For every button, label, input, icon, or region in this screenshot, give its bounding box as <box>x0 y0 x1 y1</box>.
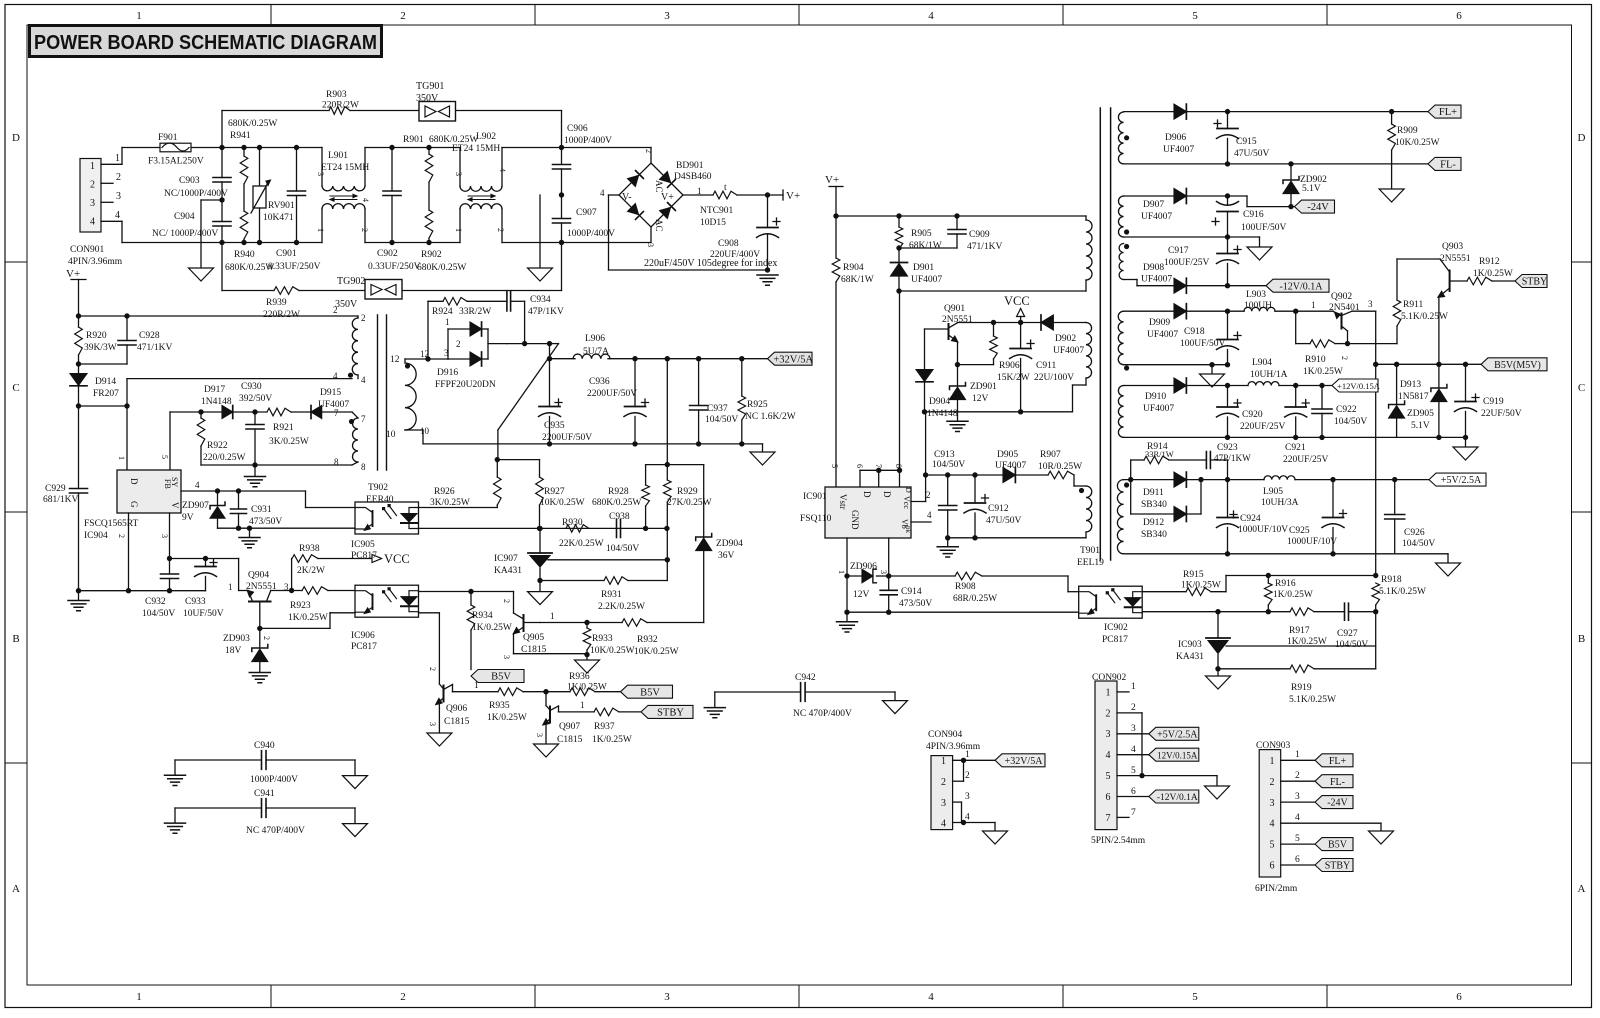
wire 12V winding return <box>1124 362 1231 374</box>
ground (C908) <box>757 275 778 285</box>
svg-text:3: 3 <box>664 991 670 1003</box>
wire CON902 pin7 stub <box>1117 808 1136 818</box>
svg-text:3: 3 <box>90 198 95 209</box>
capacitor C908 <box>710 195 780 270</box>
svg-text:UF4007: UF4007 <box>1163 145 1194 155</box>
svg-text:12V/0.15A: 12V/0.15A <box>1157 750 1198 760</box>
wire D914 to T902 pin4 and IC904 drain <box>79 371 367 470</box>
wire T901 primary return <box>899 280 1086 291</box>
svg-text:R918: R918 <box>1381 575 1402 585</box>
capacitor C926 <box>1385 480 1436 554</box>
ground (Q906) <box>427 733 452 746</box>
svg-text:V+: V+ <box>786 190 800 202</box>
svg-text:C915: C915 <box>1236 137 1257 147</box>
svg-text:IC903: IC903 <box>1178 640 1202 650</box>
svg-text:1: 1 <box>474 680 479 690</box>
svg-text:SB340: SB340 <box>1141 500 1167 510</box>
svg-text:R923: R923 <box>290 601 311 611</box>
svg-text:FL+: FL+ <box>1439 107 1457 118</box>
svg-text:22U/100V: 22U/100V <box>1034 373 1074 383</box>
svg-text:1K/0.25W: 1K/0.25W <box>472 623 512 633</box>
svg-text:IC902: IC902 <box>1104 623 1128 633</box>
transformer T902 aux winding pins 7-8 <box>334 408 366 472</box>
svg-text:L904: L904 <box>1252 358 1272 368</box>
svg-text:47U/50V: 47U/50V <box>986 516 1022 526</box>
wire Q902 output column <box>1375 311 1377 575</box>
svg-text:33R/2W: 33R/2W <box>459 307 491 317</box>
svg-text:C931: C931 <box>251 505 272 515</box>
svg-text:2: 2 <box>496 228 505 232</box>
resistor R915 <box>1142 570 1226 596</box>
ground (-24V return) <box>1247 247 1272 260</box>
svg-text:D915: D915 <box>320 388 341 398</box>
svg-text:C925: C925 <box>1289 526 1310 536</box>
wire Q904 collector node <box>271 559 302 594</box>
resistor R939 <box>263 287 300 320</box>
svg-text:22UF/50V: 22UF/50V <box>1481 409 1522 419</box>
svg-text:1: 1 <box>1106 687 1111 698</box>
svg-text:C1815: C1815 <box>557 735 583 745</box>
svg-text:L902: L902 <box>476 132 496 142</box>
svg-text:FL-: FL- <box>1440 160 1456 171</box>
svg-text:2: 2 <box>1270 777 1275 788</box>
wire CON902 pin2 tie to pin5 <box>1117 703 1145 778</box>
capacitor C928 <box>79 316 173 364</box>
svg-text:R924: R924 <box>432 307 453 317</box>
svg-text:CON902: CON902 <box>1092 673 1127 683</box>
capacitor C906 <box>553 124 613 195</box>
svg-text:6PIN/2mm: 6PIN/2mm <box>1255 884 1298 894</box>
resistor R925 <box>738 359 796 447</box>
resistor R920 <box>75 316 117 367</box>
inductor L901 common-mode choke <box>316 148 370 243</box>
svg-text:2N5401: 2N5401 <box>1329 303 1360 313</box>
dual diode D916 FFPF20U20DN <box>435 317 507 390</box>
transformer T901 primary winding <box>1086 216 1092 280</box>
svg-text:GND: GND <box>850 510 860 530</box>
svg-text:1: 1 <box>90 161 95 172</box>
svg-text:R902: R902 <box>421 250 442 260</box>
ground (secondary rail) <box>750 452 775 465</box>
svg-text:3: 3 <box>1270 798 1275 809</box>
svg-text:ZD901: ZD901 <box>970 382 997 392</box>
ground (IC901 GND) <box>837 612 858 632</box>
transformer T901 secondary winding 5V <box>1117 480 1129 554</box>
svg-text:D911: D911 <box>1143 488 1164 498</box>
svg-text:UF4007: UF4007 <box>1141 212 1172 222</box>
net flag +32V/5A (CON904) <box>995 754 1045 767</box>
svg-text:1: 1 <box>316 228 325 232</box>
diode D909 <box>1124 304 1244 340</box>
svg-text:UF4007: UF4007 <box>1141 275 1172 285</box>
capacitor C931 <box>231 491 283 528</box>
diode D912 parallel <box>1131 480 1201 540</box>
wire Q905 collector node <box>540 620 622 625</box>
svg-text:2: 2 <box>644 149 653 153</box>
svg-text:C909: C909 <box>969 230 990 240</box>
svg-text:1: 1 <box>1311 300 1316 310</box>
wire Vstr winding return <box>948 537 1086 539</box>
zener ZD907 <box>182 491 225 528</box>
svg-text:1N4148: 1N4148 <box>201 397 232 407</box>
svg-text:4: 4 <box>928 10 934 22</box>
svg-text:2: 2 <box>965 771 970 781</box>
svg-text:3: 3 <box>502 655 511 659</box>
ground (C942 right) <box>883 701 908 714</box>
svg-text:4: 4 <box>195 480 200 490</box>
svg-text:R904: R904 <box>843 263 864 273</box>
svg-text:R909: R909 <box>1397 126 1418 136</box>
svg-text:-24V: -24V <box>1327 798 1348 809</box>
resistor R916 <box>1265 576 1313 615</box>
wire CON901 pin1 to fuse <box>101 148 122 165</box>
net flag -12V/0.1A <box>1266 279 1329 292</box>
optocoupler IC906 PC817 <box>351 585 419 652</box>
ground (Q907) <box>534 744 559 757</box>
resistor R911 <box>1393 259 1448 344</box>
svg-text:C: C <box>12 382 19 394</box>
svg-text:104/50V: 104/50V <box>142 609 175 619</box>
resistor R940 <box>225 184 274 273</box>
wire top AC bus <box>191 145 564 150</box>
wire IC906 collector-out to Q905 <box>419 589 514 613</box>
svg-text:104/50V: 104/50V <box>1334 417 1367 427</box>
svg-text:C914: C914 <box>901 587 922 597</box>
svg-text:R905: R905 <box>911 229 932 239</box>
capacitor C937 <box>690 359 739 447</box>
wire B5V sense rail <box>1226 573 1378 578</box>
transformer T901 secondary winding FL <box>1118 112 1129 164</box>
connector CON901 <box>68 159 123 268</box>
svg-text:22K/0.25W: 22K/0.25W <box>559 539 604 549</box>
svg-text:3: 3 <box>879 570 888 574</box>
svg-text:D914: D914 <box>95 377 116 387</box>
svg-text:4: 4 <box>361 375 366 385</box>
svg-text:RV901: RV901 <box>268 201 295 211</box>
resistor R905 <box>895 216 942 263</box>
ground (input filter) <box>189 268 214 281</box>
capacitor C917 <box>1164 237 1241 286</box>
svg-text:473/50V: 473/50V <box>249 517 282 527</box>
svg-text:AC: AC <box>654 180 664 193</box>
capacitor C927 <box>1335 603 1376 650</box>
svg-text:5: 5 <box>1106 771 1111 782</box>
svg-text:4: 4 <box>498 168 507 172</box>
svg-text:5.1K/0.25W: 5.1K/0.25W <box>1401 312 1448 322</box>
resistor R924 snubber <box>428 298 507 360</box>
svg-text:R935: R935 <box>489 701 510 711</box>
svg-text:V-: V- <box>622 192 632 203</box>
svg-text:FB: FB <box>163 479 172 489</box>
svg-text:2: 2 <box>333 305 338 315</box>
svg-text:4: 4 <box>927 510 932 520</box>
svg-text:T901: T901 <box>1080 546 1100 556</box>
zener ZD902 <box>1283 164 1327 209</box>
svg-text:104/50V: 104/50V <box>705 415 738 425</box>
svg-text:L901: L901 <box>328 151 348 161</box>
svg-text:R925: R925 <box>747 400 768 410</box>
svg-text:VCC: VCC <box>1004 294 1030 308</box>
svg-text:2N5551: 2N5551 <box>942 315 973 325</box>
svg-text:FFPF20U20DN: FFPF20U20DN <box>435 380 496 390</box>
svg-text:10K/0.25W: 10K/0.25W <box>590 646 635 656</box>
transistor Q903 <box>1397 242 1471 364</box>
wire KA431 cathode net <box>1142 609 1290 614</box>
svg-text:104/50V: 104/50V <box>1402 539 1435 549</box>
svg-text:L905: L905 <box>1263 487 1283 497</box>
svg-text:471/1KV: 471/1KV <box>967 242 1003 252</box>
wire IC904 pin2 <box>126 513 131 593</box>
svg-text:2: 2 <box>502 599 511 603</box>
svg-text:-24V: -24V <box>1307 202 1329 213</box>
ground (C941 left) <box>165 823 186 833</box>
svg-text:3: 3 <box>646 243 655 247</box>
wire B5V(M5V) rail <box>1373 362 1481 367</box>
svg-text:2200UF/50V: 2200UF/50V <box>542 433 592 443</box>
svg-text:R908: R908 <box>955 582 976 592</box>
zener ZD903 <box>223 626 268 672</box>
svg-text:ZD904: ZD904 <box>716 539 743 549</box>
svg-text:100UF/50V: 100UF/50V <box>1180 339 1226 349</box>
svg-text:3: 3 <box>965 792 970 802</box>
svg-text:R927: R927 <box>544 487 565 497</box>
svg-text:STBY: STBY <box>1325 861 1351 872</box>
ground (bottom bus) <box>528 195 553 281</box>
svg-text:UF4007: UF4007 <box>995 461 1026 471</box>
svg-text:C926: C926 <box>1404 528 1425 538</box>
net flag +12V/0.15A (CON902) <box>1149 748 1199 761</box>
svg-text:1N4148: 1N4148 <box>927 409 958 419</box>
capacitor C933 <box>183 556 224 619</box>
svg-text:D917: D917 <box>204 385 225 395</box>
svg-text:C913: C913 <box>934 450 955 460</box>
resistor R927 <box>497 460 584 532</box>
wire IC901 pin4 stub <box>911 510 932 522</box>
wire primary gnd rail <box>79 590 206 592</box>
svg-text:5: 5 <box>1270 840 1275 851</box>
svg-text:IC907: IC907 <box>494 554 518 564</box>
svg-text:Q906: Q906 <box>446 704 467 714</box>
svg-text:5: 5 <box>830 464 839 468</box>
transformer T901 secondary winding 5V aux <box>1118 386 1123 438</box>
svg-text:+12V/0.15A: +12V/0.15A <box>1337 381 1381 391</box>
net flag B5V (R934) <box>471 670 524 683</box>
svg-text:Q903: Q903 <box>1442 242 1463 252</box>
svg-text:220UF/25V: 220UF/25V <box>1283 455 1329 465</box>
svg-text:C940: C940 <box>254 741 275 751</box>
svg-text:4PIN/3.96mm: 4PIN/3.96mm <box>926 742 981 752</box>
net flag FL+ <box>1428 105 1461 118</box>
svg-text:6: 6 <box>855 464 864 468</box>
svg-text:2.2K/0.25W: 2.2K/0.25W <box>598 602 645 612</box>
terminal V+ (IC901 feed) <box>825 174 843 219</box>
svg-text:C942: C942 <box>795 673 816 683</box>
wire upper loop to TG901 <box>222 111 562 148</box>
capacitor C911 <box>1010 323 1075 415</box>
svg-text:2: 2 <box>1106 708 1111 719</box>
svg-text:R931: R931 <box>601 590 622 600</box>
capacitor C923 <box>1206 443 1251 480</box>
capacitor C936 <box>587 359 649 447</box>
wire Vcc supply node <box>923 412 1003 478</box>
svg-text:47U/50V: 47U/50V <box>1234 149 1270 159</box>
svg-text:R940: R940 <box>234 250 255 260</box>
svg-text:68R/0.25W: 68R/0.25W <box>953 594 997 604</box>
svg-text:R926: R926 <box>434 487 455 497</box>
svg-text:C933: C933 <box>185 597 206 607</box>
wire ZD907/C931 return to opto <box>218 526 356 531</box>
svg-text:PC817: PC817 <box>351 551 377 561</box>
svg-text:10: 10 <box>420 426 430 436</box>
svg-text:TG902: TG902 <box>337 276 365 287</box>
svg-text:C938: C938 <box>609 512 630 522</box>
svg-text:L903: L903 <box>1246 290 1266 300</box>
svg-text:D916: D916 <box>437 368 458 378</box>
svg-text:12: 12 <box>390 355 400 365</box>
svg-text:2: 2 <box>456 339 461 349</box>
svg-text:5: 5 <box>1295 834 1300 844</box>
svg-text:D910: D910 <box>1145 392 1166 402</box>
ground (CON902 pin5) <box>1205 786 1230 799</box>
svg-text:+32V/5A: +32V/5A <box>773 354 813 365</box>
svg-text:D: D <box>904 487 913 493</box>
wire VCC node <box>991 320 1041 325</box>
svg-text:VCC: VCC <box>384 552 410 566</box>
svg-text:STBY: STBY <box>1522 277 1548 288</box>
svg-text:B: B <box>12 633 19 645</box>
svg-text:D: D <box>882 491 892 498</box>
svg-text:4: 4 <box>361 198 370 202</box>
capacitor C918 <box>1180 311 1241 365</box>
diode D917 <box>201 385 267 419</box>
svg-text:8: 8 <box>894 464 903 468</box>
wire feedback bus <box>419 526 670 531</box>
wire IC901 pin3 <box>879 538 891 615</box>
net flag +5V/2.5A (CON902) <box>1149 727 1199 740</box>
svg-text:R907: R907 <box>1040 450 1061 460</box>
svg-text:C902: C902 <box>377 249 398 259</box>
resistor R901 <box>403 135 478 182</box>
svg-text:FL+: FL+ <box>1329 756 1347 767</box>
svg-text:D: D <box>1578 132 1586 144</box>
spark gap TG902 <box>335 276 402 310</box>
svg-text:FSQ110: FSQ110 <box>800 514 832 524</box>
svg-text:3: 3 <box>1106 729 1111 740</box>
svg-text:47P/1KW: 47P/1KW <box>1214 453 1251 463</box>
svg-text:UF4007: UF4007 <box>1147 330 1178 340</box>
svg-text:1: 1 <box>1295 750 1300 760</box>
svg-text:6: 6 <box>1295 855 1300 865</box>
svg-text:TG901: TG901 <box>416 81 444 92</box>
svg-text:+32V/5A: +32V/5A <box>1005 756 1044 767</box>
svg-text:680K/0.25W: 680K/0.25W <box>228 119 277 129</box>
inductor L902 common-mode choke <box>452 132 507 243</box>
svg-text:C1815: C1815 <box>444 717 470 727</box>
resistor R938 to VCC <box>292 544 372 576</box>
svg-text:473/50V: 473/50V <box>899 599 932 609</box>
wire snubber return <box>511 301 528 346</box>
svg-text:R911: R911 <box>1403 300 1423 310</box>
svg-text:4: 4 <box>600 188 605 198</box>
wire bridge negative return <box>609 195 778 273</box>
wire CON903 pin1 <box>1281 750 1315 760</box>
transformer T901 aux winding (VCC) <box>1073 323 1092 412</box>
wire CON903 pin4 to ground <box>1281 813 1381 831</box>
svg-text:1: 1 <box>580 700 585 710</box>
svg-text:CON903: CON903 <box>1256 741 1291 751</box>
svg-text:36V: 36V <box>718 551 735 561</box>
net flag +12V/0.15A <box>1332 379 1381 392</box>
svg-text:CON904: CON904 <box>928 730 963 740</box>
svg-text:3: 3 <box>160 534 169 538</box>
svg-text:BD901: BD901 <box>676 161 704 171</box>
svg-text:15K/2W: 15K/2W <box>997 373 1030 383</box>
svg-text:R910: R910 <box>1305 355 1326 365</box>
wire bottom AC bus <box>122 240 651 245</box>
connector CON904 <box>926 730 981 830</box>
svg-text:D905: D905 <box>997 450 1018 460</box>
capacitor C920 <box>1217 386 1286 441</box>
resistor R922 <box>197 412 245 465</box>
svg-text:UF4007: UF4007 <box>1143 404 1174 414</box>
svg-text:R906: R906 <box>999 361 1020 371</box>
svg-text:350V: 350V <box>335 299 358 310</box>
svg-text:9V: 9V <box>182 513 194 523</box>
svg-text:4: 4 <box>1106 750 1111 761</box>
capacitor C913 <box>932 450 965 541</box>
ground (12V return) <box>1453 437 1478 460</box>
wire CON904 pin3 tie <box>953 792 970 823</box>
svg-text:1: 1 <box>1270 756 1275 767</box>
transformer T901 secondary winding -24V <box>1118 196 1129 237</box>
transformer T901 secondary winding 12V <box>1118 311 1129 370</box>
svg-text:1K/0.25W: 1K/0.25W <box>487 713 527 723</box>
svg-text:1: 1 <box>1131 682 1136 692</box>
net flag B5V (output) <box>621 685 673 698</box>
wire drain column to IC901 pins 6 7 8 <box>830 291 903 487</box>
title block POWER BOARD SCHEMATIC DIAGRAM <box>30 26 382 57</box>
svg-text:3K/0.25W: 3K/0.25W <box>430 498 470 508</box>
wire IC906 lower-left to ZD903 node <box>260 613 355 629</box>
svg-text:NC/1000P/400V: NC/1000P/400V <box>164 189 228 199</box>
thermistor NTC901 <box>683 183 783 228</box>
svg-text:C916: C916 <box>1243 210 1264 220</box>
wire C933 top to Q904 emitter <box>170 559 249 591</box>
capacitor C901 <box>268 148 321 273</box>
svg-text:2: 2 <box>262 636 271 640</box>
svg-text:NC 1.6K/2W: NC 1.6K/2W <box>745 412 796 422</box>
svg-text:C941: C941 <box>254 789 275 799</box>
net flag -12V/0.1A (CON902) <box>1149 790 1199 803</box>
svg-text:D912: D912 <box>1143 518 1164 528</box>
transformer T902 primary winding pins 2-4 <box>352 316 358 379</box>
svg-text:2: 2 <box>926 490 931 500</box>
transformer T901 core <box>1100 108 1110 560</box>
svg-text:IC906: IC906 <box>351 631 375 641</box>
svg-text:pk: pk <box>904 526 912 534</box>
resistor R906 <box>955 323 1030 384</box>
wire Q902 collector to R911 <box>1348 343 1398 345</box>
svg-text:3: 3 <box>535 733 544 737</box>
inductor L903 <box>1244 290 1333 314</box>
resistor R919 <box>1289 665 1336 705</box>
wire CON903 pin6 <box>1281 855 1315 865</box>
svg-text:D906: D906 <box>1165 133 1186 143</box>
svg-text:4PIN/3.96mm: 4PIN/3.96mm <box>68 257 123 267</box>
svg-text:NC 470P/400V: NC 470P/400V <box>246 826 305 836</box>
svg-text:UF4007: UF4007 <box>318 400 349 410</box>
svg-text:Vcc: Vcc <box>902 496 911 509</box>
